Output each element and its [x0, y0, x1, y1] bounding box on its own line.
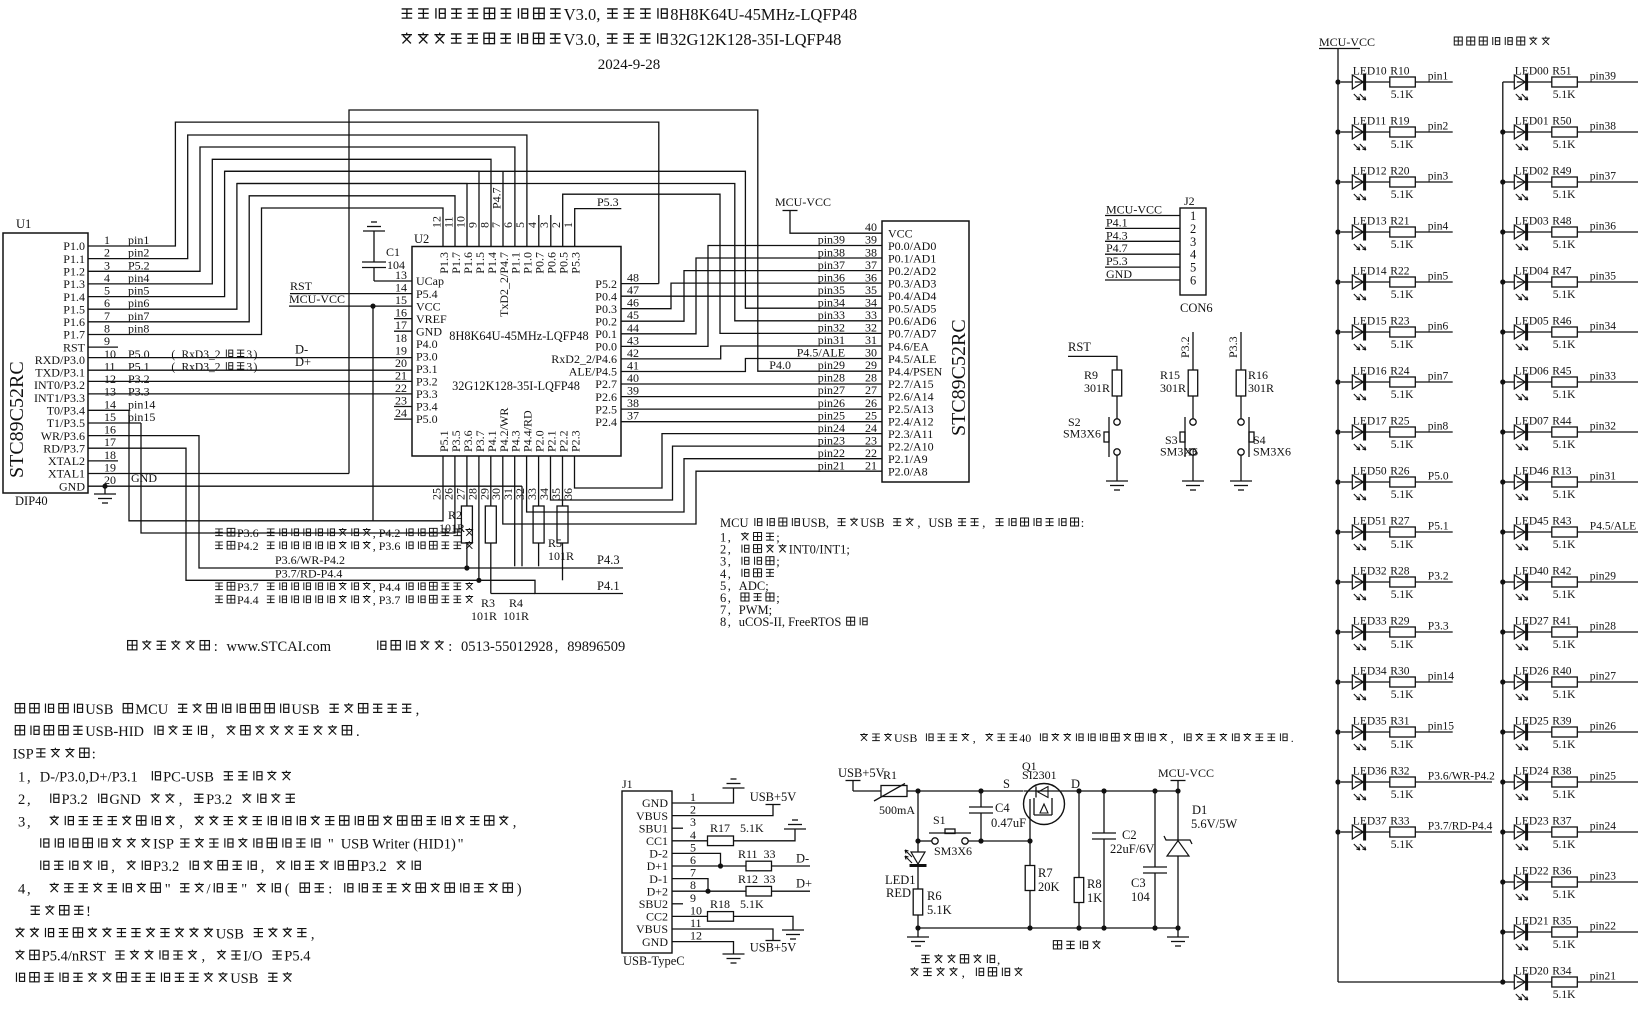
LED LED04: [1503, 266, 1549, 301]
svg-text:R36: R36: [1552, 866, 1571, 878]
svg-text:S: S: [1003, 777, 1010, 791]
wire route pin2 from U1 pin2 to U2: [88, 135, 527, 259]
wire U1 pin12 to U2 pin21 P3.2: [88, 380, 412, 382]
svg-text:MCU-VCC: MCU-VCC: [1158, 766, 1214, 780]
resistor R10 5.1K: [1355, 66, 1416, 102]
svg-text:LED12: LED12: [1353, 166, 1387, 178]
svg-text:P3.2: P3.2: [62, 792, 88, 808]
wire U1 GND row: [88, 486, 522, 566]
instruction text line 2: [15, 726, 24, 735]
svg-text:P3.7/RD-P4.4: P3.7/RD-P4.4: [1428, 821, 1493, 833]
svg-text:LED45: LED45: [1515, 516, 1549, 528]
junction R8 top: [1076, 788, 1081, 793]
LED LED02: [1503, 166, 1549, 201]
wire route P5.2 from U1 pin3 to U2: [88, 147, 515, 271]
svg-text:8: 8: [720, 615, 726, 629]
svg-text:3: 3: [1190, 235, 1196, 249]
power flag USB+5V bottom: [766, 940, 781, 942]
U1 pin9 stub: [88, 346, 118, 348]
svg-text:R27: R27: [1390, 516, 1409, 528]
svg-text:;: ;: [776, 555, 779, 569]
svg-text:24: 24: [395, 406, 407, 420]
wire J1 pin3 SBU1 stub: [672, 827, 683, 829]
LED LED03: [1503, 216, 1549, 251]
resistor R8 1K: [1074, 877, 1102, 905]
wire R35 to net pin22: [1577, 931, 1638, 933]
svg-text:,: ,: [416, 702, 420, 718]
svg-text:ISP: ISP: [153, 837, 174, 853]
wire U2 pin38 to right box pin26: [621, 408, 882, 410]
svg-text:LED35: LED35: [1353, 716, 1387, 728]
svg-text:46: 46: [627, 296, 639, 310]
wire U2 pin39 to right box pin27: [621, 396, 882, 398]
junction LED left bus row 12: [1335, 629, 1340, 634]
junction LED left bus row 4: [1335, 229, 1340, 234]
svg-text:USB: USB: [291, 702, 319, 718]
wire J1 pin6 D+1 to R11: [672, 865, 746, 867]
svg-text:D-/P3.0,D+/P3.1: D-/P3.0,D+/P3.1: [40, 770, 138, 786]
junction LED right bus row 8: [1500, 429, 1505, 434]
svg-text:LED22: LED22: [1515, 866, 1549, 878]
svg-text:R46: R46: [1552, 316, 1571, 328]
svg-text:MCU: MCU: [720, 516, 748, 530]
svg-text:MCU: MCU: [135, 702, 169, 718]
svg-text:C2: C2: [1122, 828, 1137, 842]
wire J2 pin6 net GND: [1105, 267, 1180, 281]
svg-text:29: 29: [865, 358, 877, 372]
svg-text:R47: R47: [1552, 266, 1571, 278]
svg-text:5.1K: 5.1K: [1391, 439, 1414, 451]
wire Q1 drain rail to MCU-VCC: [1064, 790, 1178, 792]
wire rail to Q1 source: [918, 790, 1024, 792]
power MCU-VCC feed to right box VCC: [775, 195, 882, 233]
svg-text:R19: R19: [1390, 116, 1409, 128]
svg-text:C3: C3: [1131, 876, 1146, 890]
svg-text:LED13: LED13: [1353, 216, 1387, 228]
svg-text:5.1K: 5.1K: [1391, 589, 1414, 601]
svg-text:101R: 101R: [439, 521, 465, 535]
resistor R15 301R: [1160, 368, 1198, 396]
svg-text:RxD3_2: RxD3_2: [182, 349, 221, 361]
svg-text:12: 12: [690, 929, 702, 943]
svg-text:USB-HID: USB-HID: [85, 724, 144, 740]
svg-text:pin15: pin15: [128, 410, 155, 424]
resistor R33 5.1K: [1355, 816, 1416, 852]
wire J1 pin8 D+2 to R12: [672, 890, 746, 892]
svg-text:P3.2: P3.2: [153, 859, 179, 875]
svg-text:LED20: LED20: [1515, 966, 1549, 978]
svg-text:37: 37: [627, 409, 639, 423]
svg-text:pin26: pin26: [1590, 721, 1616, 733]
svg-text:6: 6: [1190, 274, 1196, 288]
junction LED left bus row 8: [1335, 429, 1340, 434]
svg-text:5.1K: 5.1K: [1553, 989, 1576, 1001]
title line 1: [402, 9, 413, 18]
svg-text:23: 23: [865, 433, 877, 447]
wire R32 to net P3.6/WR-P4.2: [1415, 781, 1492, 783]
wire R25 to net pin8: [1415, 431, 1452, 433]
svg-text:R9: R9: [1084, 368, 1098, 382]
resistor R22 5.1K: [1355, 266, 1416, 302]
junction LED left bus row 14: [1335, 729, 1340, 734]
svg-text:P3.6: P3.6: [237, 526, 259, 540]
wire U2 pin36 column staircase to right box pin24: [575, 434, 883, 488]
wire R48 to net pin36: [1577, 231, 1638, 233]
svg-text:25: 25: [865, 408, 877, 422]
net label P3.3 and wire: [1226, 332, 1241, 370]
wire R21 to net pin4: [1415, 231, 1452, 233]
svg-text:uCOS-II, FreeRTOS: uCOS-II, FreeRTOS: [739, 615, 842, 629]
wire U2 pin40 to right box pin28: [621, 383, 882, 385]
svg-text:GND: GND: [642, 935, 668, 949]
svg-text:48: 48: [627, 271, 639, 285]
wire R31 to net pin15: [1415, 731, 1452, 733]
wire R30 to net pin14: [1415, 681, 1452, 683]
LED LED07: [1503, 416, 1549, 451]
svg-text:3: 3: [246, 361, 252, 373]
U1 pin numbers 1-20: [104, 233, 116, 487]
svg-text:pin15: pin15: [1428, 721, 1454, 733]
wire U2 pin37 to right box pin25: [621, 421, 882, 423]
svg-text:5.1K: 5.1K: [1391, 389, 1414, 401]
ground at bottom rail left: [907, 928, 929, 946]
LED LED06: [1503, 366, 1549, 401]
svg-text:;: ;: [776, 591, 779, 605]
LED LED26: [1503, 666, 1549, 701]
svg-text:104: 104: [1131, 890, 1151, 904]
svg-text:.: .: [356, 724, 360, 740]
wire R34 to net pin21: [1577, 981, 1638, 983]
svg-text:1: 1: [18, 770, 25, 786]
svg-text:2: 2: [18, 792, 25, 808]
junction R7 bottom: [1027, 925, 1032, 930]
ground below S4: [1230, 480, 1252, 482]
svg-text:R1: R1: [883, 768, 897, 782]
svg-text:pin21: pin21: [1590, 971, 1616, 983]
IC U1 STC89C52RC DIP40: [3, 217, 88, 508]
LED LED24: [1503, 766, 1549, 801]
vendor phone text: [378, 641, 386, 650]
wire R8 to bottom rail: [1078, 903, 1080, 929]
svg-text:,: ,: [27, 882, 31, 898]
instruction text line 1: [15, 704, 24, 713]
svg-text:GND: GND: [131, 471, 157, 485]
resistor R6 5.1K: [913, 889, 951, 917]
junction LED right bus row 15: [1500, 779, 1505, 784]
LED LED1 RED: [885, 850, 927, 900]
svg-text:R22: R22: [1390, 266, 1409, 278]
svg-text:38: 38: [627, 396, 639, 410]
ground above R17: [784, 828, 806, 830]
resistor R38 5.1K: [1517, 766, 1578, 802]
svg-text:P2.0/A8: P2.0/A8: [888, 465, 928, 479]
svg-text:LED27: LED27: [1515, 616, 1549, 628]
wire R20 to net pin3: [1415, 181, 1452, 183]
U2 top pin numbers 12-1: [430, 216, 576, 228]
svg-text:P4.7: P4.7: [1106, 241, 1128, 255]
svg-text:R32: R32: [1390, 766, 1409, 778]
svg-text:R13: R13: [1552, 466, 1571, 478]
wire U1 pin13 to U2 pin22 P3.3: [88, 393, 412, 395]
net RST label at U2 pin14: [290, 279, 412, 294]
svg-text:LED02: LED02: [1515, 166, 1549, 178]
wire LED1 branch: [917, 841, 919, 852]
svg-text:39: 39: [865, 233, 877, 247]
wire J1 pin12 GND: [672, 942, 734, 954]
wire LED bus bottom tie: [1338, 981, 1503, 983]
svg-text:5.1K: 5.1K: [1391, 289, 1414, 301]
LED LED01: [1503, 116, 1549, 151]
wire U2 pin33 column through R4: [538, 456, 540, 566]
svg-text:12: 12: [430, 216, 444, 228]
svg-text:P4.7: P4.7: [490, 187, 504, 209]
svg-text:R25: R25: [1390, 416, 1409, 428]
svg-text:5.1K: 5.1K: [1553, 139, 1576, 151]
wire R36 to net pin23: [1577, 881, 1638, 883]
svg-text:(: (: [171, 361, 175, 373]
svg-text:5.1K: 5.1K: [1391, 689, 1414, 701]
note text P3.6 weak pullup line2: [215, 542, 223, 549]
LED LED13: [1341, 216, 1387, 251]
svg-text:301R: 301R: [1248, 381, 1274, 395]
wire U2 pin43 to right box pin39: [621, 246, 882, 347]
svg-text:P2.4: P2.4: [595, 415, 617, 429]
wire R27 to net P5.1: [1415, 531, 1452, 533]
instruction text line 10: [31, 906, 40, 914]
wire R26 to net P5.0: [1415, 481, 1452, 483]
resistor R16 301R: [1236, 368, 1274, 396]
wire U2 pin46 to right box pin36: [621, 283, 882, 309]
svg-text:R34: R34: [1552, 966, 1571, 978]
svg-text:,: ,: [27, 770, 31, 786]
svg-text:pin25: pin25: [1590, 771, 1616, 783]
svg-text:R42: R42: [1552, 566, 1571, 578]
svg-text:USB Writer (HID1): USB Writer (HID1): [341, 837, 456, 853]
U2 right pin numbers 48-37: [627, 271, 639, 423]
junction LED right bus row 17: [1500, 879, 1505, 884]
svg-text:5.1K: 5.1K: [1553, 89, 1576, 101]
svg-text:5.1K: 5.1K: [740, 897, 764, 911]
ground at bottom rail right: [1167, 928, 1189, 946]
resistor R49 5.1K: [1517, 166, 1578, 202]
svg-text:5.1K: 5.1K: [1553, 389, 1576, 401]
svg-text:8H8K64U-45MHz-LQFP48: 8H8K64U-45MHz-LQFP48: [670, 5, 857, 24]
svg-text:U2: U2: [414, 232, 429, 246]
wire U1 XTAL1 row to bus vertical: [88, 473, 349, 475]
resistor R42 5.1K: [1517, 566, 1578, 602]
wire U2 top col2 to pin32 column: [563, 194, 882, 333]
resistor R36 5.1K: [1517, 866, 1578, 902]
junction LED right bus row 12: [1500, 629, 1505, 634]
IC U2 8H8K64U-45MHz-LQFP48: [412, 232, 621, 456]
svg-text:101R: 101R: [548, 549, 574, 563]
svg-text:R29: R29: [1390, 616, 1409, 628]
svg-text:42: 42: [627, 346, 639, 360]
svg-text:5.1K: 5.1K: [927, 903, 952, 917]
svg-text:5.1K: 5.1K: [1553, 939, 1576, 951]
svg-text:1K: 1K: [1087, 891, 1102, 905]
instruction text line 8: [41, 861, 49, 870]
svg-text:0.47uF: 0.47uF: [991, 816, 1026, 830]
wire J2 pin4 net P4.7: [1105, 241, 1180, 255]
svg-text:101R: 101R: [503, 609, 529, 623]
svg-text:LED25: LED25: [1515, 716, 1549, 728]
wire S1 to gate node: [968, 840, 1030, 842]
svg-text:R12: R12: [738, 872, 758, 886]
wire S3 to ground: [1192, 455, 1194, 481]
J1 pin numbers 1-12: [690, 790, 702, 943]
wire R13 to net pin31: [1577, 481, 1638, 483]
capacitor C1 104: [362, 231, 405, 281]
U2 top col7 riser P4.7: [502, 172, 504, 247]
resistor R25 5.1K: [1355, 416, 1416, 452]
svg-text:,: ,: [1171, 731, 1174, 745]
svg-text:LED06: LED06: [1515, 366, 1549, 378]
svg-text:5.1K: 5.1K: [1391, 789, 1414, 801]
svg-text:USB: USB: [928, 516, 952, 530]
svg-text:ISP: ISP: [13, 747, 34, 763]
svg-text:5.1K: 5.1K: [1553, 689, 1576, 701]
svg-text:pin35: pin35: [1590, 271, 1616, 283]
svg-text:R45: R45: [1552, 366, 1571, 378]
svg-text:24: 24: [865, 421, 877, 435]
svg-text:": ": [328, 837, 334, 853]
resistor R26 5.1K: [1355, 466, 1416, 502]
svg-text:ADC;: ADC;: [739, 579, 769, 593]
svg-text:R28: R28: [1390, 566, 1409, 578]
svg-text::: :: [448, 639, 452, 655]
wire bottom rail: [918, 927, 1178, 929]
svg-text:R23: R23: [1390, 316, 1409, 328]
svg-text:5.1K: 5.1K: [1391, 489, 1414, 501]
svg-text:LED10: LED10: [1353, 66, 1387, 78]
resistor R35 5.1K: [1517, 916, 1578, 952]
capacitor C4 0.47uF: [969, 791, 1026, 841]
svg-text:,: ,: [997, 952, 1000, 967]
svg-text:,: ,: [211, 724, 215, 740]
svg-text:2: 2: [1190, 222, 1196, 236]
svg-text:36: 36: [865, 270, 877, 284]
wire U2 pin45 to right box pin37: [621, 271, 882, 322]
junction D- node: [718, 863, 723, 868]
svg-text:32G12K128-35I-LQFP48: 32G12K128-35I-LQFP48: [670, 30, 841, 49]
wire route pin5 from U1 pin5 to U2: [88, 171, 479, 296]
LED LED12: [1341, 166, 1387, 201]
svg-text:5.1K: 5.1K: [1553, 539, 1576, 551]
resistor R27 5.1K: [1355, 516, 1416, 552]
svg-text:,: ,: [27, 792, 31, 808]
wire R47 to net pin35: [1577, 281, 1638, 283]
junction C3 bottom: [1152, 925, 1157, 930]
svg-text:301R: 301R: [1084, 381, 1110, 395]
svg-text:LED03: LED03: [1515, 216, 1549, 228]
svg-text:22uF/6V: 22uF/6V: [1110, 842, 1154, 856]
svg-text:89896509: 89896509: [567, 639, 625, 655]
wire J1 pin11 VBUS to USB+5V bottom: [672, 929, 773, 941]
wire U2 pin47 to right box pin35: [621, 295, 882, 297]
svg-text:V3.0,: V3.0,: [564, 5, 601, 24]
junction LED left bus row 13: [1335, 679, 1340, 684]
svg-text:27: 27: [865, 383, 877, 397]
svg-text:5.1K: 5.1K: [1553, 739, 1576, 751]
svg-text:STC89C52RC: STC89C52RC: [948, 319, 970, 436]
svg-text:pin24: pin24: [1590, 821, 1616, 833]
svg-text:MCU-VCC: MCU-VCC: [1106, 203, 1162, 217]
svg-text:R51: R51: [1552, 66, 1571, 78]
svg-text:LED07: LED07: [1515, 416, 1549, 428]
svg-text:USB: USB: [894, 731, 917, 745]
net label P3.2 and wire: [1178, 332, 1193, 370]
wire R15 to S3: [1192, 396, 1194, 419]
ground below J1 pin12: [723, 953, 745, 955]
svg-text:GND: GND: [1106, 267, 1132, 281]
LED LED40: [1503, 566, 1549, 601]
resistor R17 5.1K: [708, 821, 765, 846]
svg-text:R16: R16: [1248, 368, 1268, 382]
LED LED21: [1503, 916, 1549, 951]
svg-text:): ): [254, 361, 258, 373]
svg-text:37: 37: [865, 258, 877, 272]
LED LED20: [1503, 966, 1549, 1001]
switch S2 SM3X6: [1063, 415, 1120, 457]
svg-text:(: (: [285, 882, 290, 898]
svg-text:P4.1: P4.1: [597, 579, 620, 593]
svg-text:0513-55012928: 0513-55012928: [461, 639, 553, 655]
svg-text:LED32: LED32: [1353, 566, 1387, 578]
svg-text:R24: R24: [1390, 366, 1409, 378]
wire J1 pin7 D-1 tie: [672, 879, 708, 892]
LED LED34: [1341, 666, 1387, 701]
svg-text:40: 40: [865, 220, 877, 234]
svg-text:P4.4: P4.4: [237, 593, 259, 607]
junction C2 top: [1101, 788, 1106, 793]
wire J1 pin1 GND: [672, 788, 734, 803]
svg-text:P5.3: P5.3: [597, 195, 619, 209]
svg-text:pin23: pin23: [1590, 871, 1616, 883]
LED LED50: [1341, 466, 1387, 501]
ground below R18: [782, 929, 804, 931]
U2 pin16 pin17 stubs: [394, 319, 412, 332]
resistor R51 5.1K: [1517, 66, 1578, 102]
svg-text:pin33: pin33: [1590, 371, 1616, 383]
svg-text:P4.3: P4.3: [597, 553, 620, 567]
resistor R28 5.1K: [1355, 566, 1416, 602]
wire R43 to net P4.5/ALE: [1577, 531, 1638, 533]
wire R22 to net pin5: [1415, 281, 1452, 283]
wire R49 to net pin37: [1577, 181, 1638, 183]
wire R1 to S node: [907, 790, 918, 792]
wire R44 to net pin32: [1577, 431, 1638, 433]
svg-text:P3.3: P3.3: [1226, 336, 1240, 358]
resistor R32 5.1K: [1355, 766, 1416, 802]
svg-text:5.6V/5W: 5.6V/5W: [1191, 817, 1237, 831]
svg-text:R18: R18: [710, 897, 730, 911]
svg-text:LED36: LED36: [1353, 766, 1387, 778]
svg-text:R40: R40: [1552, 666, 1571, 678]
wire S4 to ground: [1240, 455, 1242, 481]
svg-text:RST: RST: [290, 279, 313, 293]
junction LED left bus row 1: [1335, 79, 1340, 84]
U1 pin net labels: [128, 233, 258, 424]
wire J1 pin9 SBU2 stub: [672, 903, 683, 905]
note power button line2: [910, 967, 918, 976]
LED LED10: [1341, 66, 1387, 101]
svg-text:pin8: pin8: [1428, 421, 1449, 433]
resistor R34 5.1K: [1517, 966, 1578, 1002]
U2 top col3 riser: [550, 215, 552, 247]
LED LED00: [1503, 66, 1549, 101]
resistor R12 33: [738, 872, 776, 896]
